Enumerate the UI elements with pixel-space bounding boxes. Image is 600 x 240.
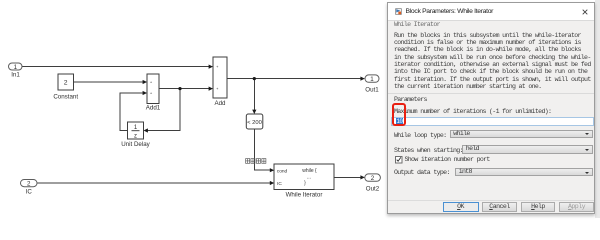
svg-text:2: 2 — [371, 175, 375, 182]
wire Constant to Add1 — [74, 81, 145, 83]
arrowhead into Add1 in2 — [143, 91, 147, 95]
arrowhead into cond port — [270, 168, 274, 172]
svg-text:Out1: Out1 — [365, 87, 379, 94]
wire While Iterator to Out2 — [334, 176, 362, 178]
wire Add to Out1 — [227, 78, 362, 80]
inport IC — [21, 180, 38, 187]
Block Parameters dialog — [387, 2, 595, 214]
junction node — [253, 77, 256, 80]
wire unit delay to Add1 — [120, 93, 144, 131]
wire In1 to Add — [22, 66, 210, 68]
sum Add1 — [147, 74, 159, 104]
arrowhead into Out1 — [360, 77, 364, 81]
wire junction to unit delay — [147, 89, 180, 131]
unit delay block — [128, 122, 144, 139]
svg-text:1: 1 — [370, 76, 374, 83]
wire IC to While Iterator — [37, 182, 272, 184]
svg-text:Out2: Out2 — [366, 186, 380, 193]
svg-text:Add1: Add1 — [146, 105, 161, 112]
junction node — [178, 87, 181, 90]
svg-text:2: 2 — [64, 80, 68, 87]
svg-text:1: 1 — [14, 64, 18, 71]
svg-text:Add: Add — [214, 100, 226, 107]
dialog icon — [395, 8, 402, 15]
svg-text:...: ... — [307, 175, 311, 181]
arrowhead into compare block — [252, 110, 256, 114]
arrowhead into Out2 — [360, 175, 364, 179]
svg-text:IC: IC — [277, 181, 282, 187]
svg-text:Unit Delay: Unit Delay — [121, 141, 150, 148]
inport In1 — [9, 63, 23, 70]
arrowhead into Add1 in1 — [143, 80, 147, 84]
svg-text:cond: cond — [277, 168, 288, 174]
while iterator block — [274, 164, 334, 189]
svg-text:While Iterator: While Iterator — [286, 192, 323, 199]
wire Add1 to Add — [159, 88, 210, 90]
svg-text:IC: IC — [26, 189, 33, 196]
signal label chinese — [246, 159, 266, 164]
wire compare to cond — [255, 129, 272, 170]
sum Add — [213, 57, 227, 98]
constant block — [58, 74, 74, 90]
arrowhead into IC port — [270, 181, 274, 185]
right gray strip — [595, 0, 600, 218]
svg-text:In1: In1 — [11, 72, 20, 79]
arrowhead into Unit Delay — [144, 128, 148, 132]
svg-text:z: z — [134, 133, 137, 139]
outport Out2 — [365, 174, 381, 181]
svg-text:Constant: Constant — [53, 94, 78, 101]
svg-text:2: 2 — [27, 181, 31, 188]
svg-text:< 200: < 200 — [247, 120, 262, 126]
wire junction down to compare — [253, 79, 255, 112]
svg-text:while {: while { — [302, 168, 317, 174]
arrowhead into Add in2 — [209, 87, 213, 91]
outport Out1 — [365, 75, 379, 82]
compare block < 200 — [246, 114, 262, 129]
arrowhead into Add in1 — [209, 65, 213, 69]
